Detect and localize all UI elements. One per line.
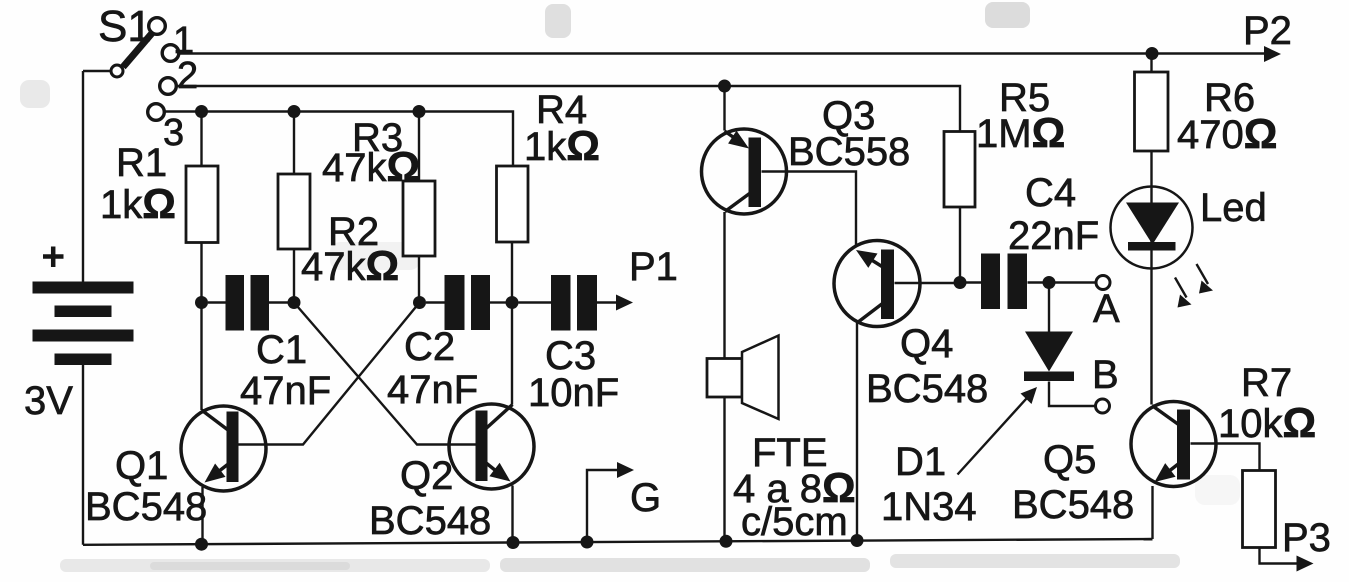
svg-text:10nF: 10nF <box>528 371 619 415</box>
svg-text:Q2: Q2 <box>400 454 453 498</box>
svg-text:Q4: Q4 <box>900 322 953 366</box>
svg-text:47kΩ: 47kΩ <box>301 242 399 289</box>
svg-text:BC548: BC548 <box>866 367 988 411</box>
svg-text:1MΩ: 1MΩ <box>976 109 1065 156</box>
svg-text:47nF: 47nF <box>387 368 478 412</box>
svg-text:C4: C4 <box>1025 171 1076 215</box>
svg-text:BC548: BC548 <box>1012 483 1134 527</box>
svg-text:22nF: 22nF <box>1008 214 1099 258</box>
svg-text:S1: S1 <box>98 2 152 51</box>
svg-text:P3: P3 <box>1282 516 1331 560</box>
svg-text:c/5cm: c/5cm <box>741 500 848 544</box>
svg-text:Q5: Q5 <box>1043 438 1096 482</box>
svg-text:1kΩ: 1kΩ <box>524 122 600 169</box>
svg-text:470Ω: 470Ω <box>1177 110 1277 157</box>
svg-text:Led: Led <box>1200 186 1267 230</box>
svg-text:D1: D1 <box>895 440 946 484</box>
svg-text:2: 2 <box>177 55 198 97</box>
svg-text:A: A <box>1093 287 1120 331</box>
svg-text:Q1: Q1 <box>115 444 168 488</box>
svg-text:3V: 3V <box>24 379 73 423</box>
svg-text:BC548: BC548 <box>369 499 491 543</box>
svg-text:47kΩ: 47kΩ <box>322 143 420 190</box>
svg-text:47nF: 47nF <box>240 369 331 413</box>
svg-text:1kΩ: 1kΩ <box>100 180 176 227</box>
svg-text:C1: C1 <box>256 328 307 372</box>
svg-text:P2: P2 <box>1243 9 1292 53</box>
svg-text:B: B <box>1092 353 1119 397</box>
svg-text:G: G <box>630 476 661 520</box>
svg-text:P1: P1 <box>629 245 678 289</box>
svg-text:10kΩ: 10kΩ <box>1218 399 1316 446</box>
svg-text:C2: C2 <box>404 325 455 369</box>
svg-text:BC558: BC558 <box>788 130 910 174</box>
svg-text:BC548: BC548 <box>85 485 207 529</box>
svg-text:1N34: 1N34 <box>881 485 977 529</box>
svg-text:R1: R1 <box>116 141 167 185</box>
